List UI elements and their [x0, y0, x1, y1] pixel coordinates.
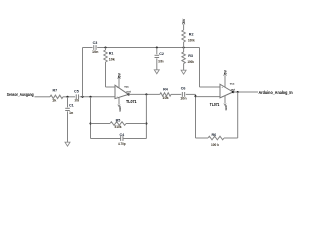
svg-text:4.70p: 4.70p	[118, 142, 126, 146]
svg-text:Arduino_Analog_In: Arduino_Analog_In	[259, 90, 293, 95]
svg-text:10n: 10n	[180, 97, 187, 101]
svg-text:GND: GND	[119, 106, 122, 112]
svg-text:C5: C5	[74, 90, 79, 94]
svg-text:C6: C6	[181, 87, 186, 91]
svg-text:R7: R7	[52, 89, 57, 93]
svg-text:out: out	[126, 90, 130, 94]
svg-text:100n: 100n	[75, 98, 80, 102]
svg-text:R6: R6	[211, 133, 216, 137]
svg-text:vcc: vcc	[230, 82, 235, 86]
svg-text:R3: R3	[188, 54, 193, 58]
svg-text:10n: 10n	[92, 50, 99, 54]
svg-text:C1: C1	[69, 104, 74, 108]
svg-text:vcc: vcc	[124, 84, 129, 88]
svg-text:510k: 510k	[115, 125, 123, 129]
svg-text:R5: R5	[116, 118, 121, 122]
svg-text:GND: GND	[225, 105, 228, 111]
svg-text:C2: C2	[159, 52, 164, 56]
svg-text:10k: 10k	[109, 58, 116, 62]
svg-text:out: out	[231, 87, 235, 91]
svg-text:10k: 10k	[162, 96, 169, 100]
svg-text:100 k: 100 k	[211, 143, 220, 147]
svg-text:R1: R1	[109, 52, 114, 56]
svg-text:C3: C3	[93, 41, 98, 45]
svg-text:1n: 1n	[69, 111, 74, 115]
svg-text:100k: 100k	[187, 60, 194, 64]
svg-text:R2: R2	[189, 32, 194, 36]
svg-text:TL071: TL071	[126, 99, 137, 104]
svg-text:Sensor_Ausgang: Sensor_Ausgang	[7, 92, 34, 97]
svg-text:100n: 100n	[158, 59, 164, 63]
svg-text:100k: 100k	[188, 39, 195, 43]
svg-text:TL071: TL071	[210, 102, 220, 107]
